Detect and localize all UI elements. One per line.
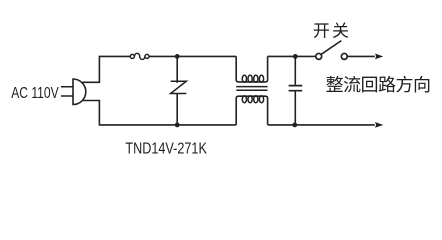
svg-text:TND14V-271K: TND14V-271K [125, 140, 207, 157]
svg-text:AC 110V: AC 110V [11, 85, 59, 102]
